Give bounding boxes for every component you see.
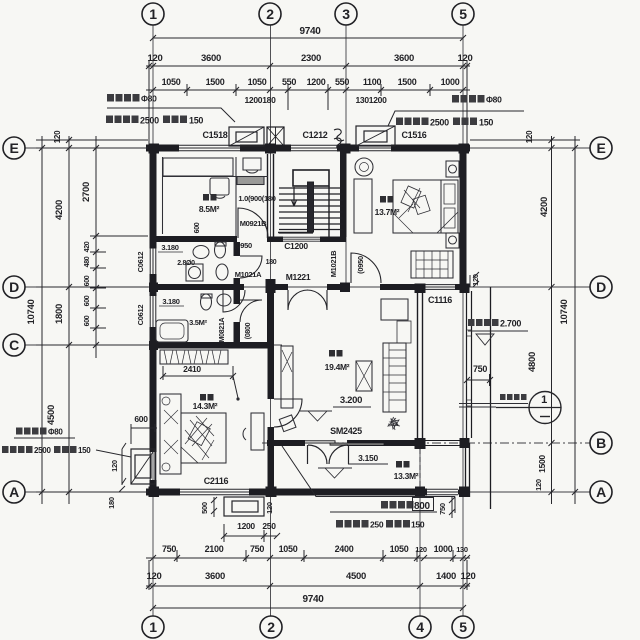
svg-text:4: 4: [416, 619, 424, 635]
axis bubble 5 top: [452, 3, 474, 25]
ticks left: [39, 137, 99, 495]
bedroom2 nightstand top: [446, 161, 459, 177]
wall top E segment left: [146, 145, 179, 152]
svg-text:3.150: 3.150: [358, 453, 378, 463]
axis bubble 5 bottom: [452, 616, 474, 638]
svg-text:D: D: [596, 279, 606, 295]
svg-text:4500: 4500: [46, 405, 57, 425]
svg-text:B: B: [596, 435, 606, 451]
room label bedroom2: [375, 196, 400, 217]
wall left axis1 bottom: [150, 480, 157, 496]
annotation balcony rail: [500, 394, 527, 400]
svg-text:1000: 1000: [441, 77, 460, 87]
bathroom1 toilet: [215, 242, 226, 258]
svg-text:C2116: C2116: [204, 476, 229, 486]
living cabinet top right: [381, 299, 408, 320]
svg-text:120: 120: [147, 571, 162, 582]
svg-text:C1212: C1212: [302, 130, 327, 140]
axis bubble 2 top: [259, 3, 281, 25]
wall interior y236 bedroom8.5 bottom: [153, 236, 237, 242]
wall axis2 C-door: [268, 348, 275, 399]
bay box window C1518: [229, 127, 264, 146]
dim line 9740 top: [153, 37, 463, 39]
balcony rail hatch: [467, 330, 472, 406]
svg-text:120: 120: [148, 53, 163, 64]
axis bubble 1 bottom: [142, 616, 164, 638]
svg-text:2500: 2500: [430, 118, 449, 128]
column axis1/A: [149, 487, 160, 498]
axis4 dashed below B: [419, 449, 421, 488]
svg-text:2: 2: [267, 619, 275, 635]
bathroom1 fixture: [216, 264, 228, 280]
wall axis2 B-A: [268, 443, 275, 492]
axis bubble E right: [590, 137, 612, 159]
living plant: [388, 417, 400, 430]
axis bubble 3 top: [335, 3, 357, 25]
axis E line: [25, 147, 590, 149]
svg-text:3600: 3600: [394, 53, 414, 64]
svg-text:1200180: 1200180: [245, 95, 277, 105]
flue squiggle right of axis3: [334, 129, 344, 149]
column axis4/B: [415, 438, 426, 449]
svg-text:2500: 2500: [140, 116, 159, 126]
svg-text:C1518: C1518: [202, 130, 227, 140]
svg-text:250: 250: [370, 520, 384, 530]
wall axis2 column at D: [266, 279, 276, 293]
door bedroom3 leaf+arc: [274, 399, 302, 427]
column axis2/E: [265, 144, 276, 154]
dim line 1200/250: [221, 524, 280, 542]
door M0921B bedroom1 leaf+arc: [238, 208, 268, 238]
svg-text:3.180: 3.180: [161, 243, 178, 252]
extension stubs right: [470, 137, 580, 495]
room label living: [325, 350, 350, 372]
svg-text:Φ80: Φ80: [141, 94, 157, 104]
window C1200 under stair: [283, 237, 320, 241]
svg-text:M0821A: M0821A: [219, 317, 226, 342]
wall D right segment: [380, 284, 425, 290]
column axis1/E: [149, 144, 160, 154]
wall axis2 D-C: [267, 290, 274, 345]
bedroom2 nightstand bottom: [446, 233, 459, 248]
door lower bath leaf+arc: [240, 300, 262, 322]
wall bath east x237: [234, 242, 241, 256]
window bottom right kitchen: [427, 489, 458, 495]
dim line 4200/4800/1500 right: [551, 136, 553, 504]
dim line 120/3600/4500/1400/120: [146, 585, 470, 587]
svg-text:150: 150: [189, 116, 203, 126]
ticks row2: [146, 63, 470, 69]
bay box window C2116 south: [224, 497, 264, 516]
svg-text:4200: 4200: [54, 200, 65, 220]
svg-text:E: E: [9, 140, 18, 156]
column axis2/A: [266, 487, 277, 498]
svg-text:19.4M²: 19.4M²: [325, 362, 350, 372]
room label kitchen: [394, 461, 419, 481]
svg-text:1050: 1050: [162, 77, 181, 87]
wall top E segment right: [391, 145, 470, 152]
svg-text:150: 150: [411, 520, 425, 530]
wall C y345: [153, 342, 274, 349]
balcony rail E-B: [467, 291, 472, 438]
column axis5/D: [460, 284, 470, 294]
window C1518 top wall: [179, 145, 240, 151]
svg-text:120: 120: [458, 53, 473, 64]
svg-text:A: A: [9, 484, 19, 500]
wall left axis1 upper: [150, 145, 157, 249]
svg-text:1301200: 1301200: [356, 95, 388, 105]
svg-text:2300: 2300: [301, 53, 321, 64]
window C1116 in D wall: [425, 285, 455, 290]
svg-text:C: C: [9, 337, 19, 353]
svg-text:2500: 2500: [34, 446, 51, 455]
ticks row1: [150, 35, 466, 41]
svg-text:600: 600: [84, 275, 91, 286]
wall D hall segment: [266, 284, 288, 290]
svg-text:120: 120: [525, 130, 534, 143]
svg-text:2700: 2700: [81, 182, 92, 202]
bathroom1 washbasin: [193, 246, 209, 259]
column axis4/A: [415, 487, 425, 498]
svg-text:750: 750: [162, 544, 176, 554]
svg-text:1: 1: [149, 619, 157, 635]
wall top E segment mid (axis1-2): [240, 145, 291, 152]
room label bedroom3: [193, 394, 218, 411]
bedroom3 bed headboard: [160, 394, 181, 474]
svg-text:3: 3: [342, 6, 350, 22]
svg-text:120: 120: [534, 479, 543, 491]
svg-text:(0950: (0950: [234, 241, 252, 250]
axis bubble 2 bottom: [260, 616, 282, 638]
window C0612 upper left wall: [150, 248, 156, 274]
svg-text:2: 2: [266, 6, 274, 22]
svg-text:600: 600: [134, 414, 148, 424]
annotation wall height left: [106, 116, 203, 126]
svg-text:150: 150: [78, 446, 91, 455]
wall stair east x346: [340, 148, 347, 237]
svg-text:130: 130: [456, 545, 468, 554]
svg-text:120: 120: [461, 571, 476, 582]
svg-text:750: 750: [250, 544, 264, 554]
svg-text:(0950: (0950: [356, 256, 365, 274]
dim line detail row: [146, 89, 470, 91]
wall D left (bath bottom): [153, 284, 244, 290]
svg-text:2100: 2100: [205, 544, 224, 554]
svg-text:120: 120: [415, 545, 427, 554]
svg-text:10740: 10740: [559, 300, 570, 325]
column axis4/D: [415, 284, 426, 294]
svg-text:750: 750: [473, 364, 487, 374]
axis A line: [25, 491, 590, 493]
wall axis2 E-D double line: [268, 154, 274, 238]
svg-text:180: 180: [107, 497, 116, 509]
svg-text:1800: 1800: [54, 304, 65, 324]
annotation wall height bottom-mid: [336, 520, 425, 530]
svg-text:D: D: [9, 279, 19, 295]
svg-text:550: 550: [335, 77, 349, 87]
wall D far right segment: [455, 284, 467, 290]
living east wall axis4 double line: [418, 290, 423, 440]
bedroom2 round chair: [355, 158, 373, 176]
level symbol 2.700: [468, 331, 528, 345]
bedroom1 closet top: [163, 158, 233, 176]
svg-text:4800: 4800: [527, 352, 538, 372]
svg-text:180: 180: [266, 259, 277, 266]
svg-text:1: 1: [541, 394, 547, 406]
svg-text:3600: 3600: [205, 571, 225, 582]
wall bottom A left: [146, 489, 180, 496]
stair bottom edge: [278, 232, 313, 234]
living sofa right: [383, 343, 406, 412]
svg-text:600: 600: [84, 315, 91, 326]
axis D line: [25, 286, 590, 288]
svg-text:14.3M²: 14.3M²: [193, 401, 218, 411]
axis 4 line: [419, 446, 421, 616]
bedroom3 wardrobe hatched: [160, 350, 228, 364]
svg-text:1500: 1500: [398, 77, 417, 87]
svg-text:1500: 1500: [206, 77, 225, 87]
svg-text:3.5M²: 3.5M²: [189, 318, 207, 327]
svg-text:120: 120: [110, 460, 119, 472]
axis bubble A left: [3, 481, 25, 503]
axis bubble C left: [3, 334, 25, 356]
bathroom2 toilet: [201, 294, 212, 310]
svg-text:C0612: C0612: [136, 252, 145, 273]
column axis3/E: [340, 144, 351, 154]
column axis1/C: [149, 341, 158, 350]
column axis3/D: [340, 283, 350, 293]
axis bubble 1 top: [142, 3, 164, 25]
bathroom1 washer: [186, 264, 203, 281]
svg-text:Φ80: Φ80: [486, 95, 502, 105]
svg-text:SM2425: SM2425: [330, 426, 362, 436]
svg-text:1200: 1200: [237, 521, 255, 531]
annotation AC hole bottom-mid: [381, 498, 434, 513]
svg-text:1050: 1050: [279, 544, 298, 554]
svg-text:2400: 2400: [335, 544, 354, 554]
axis bubble E left: [3, 137, 25, 159]
column axis5/B: [460, 438, 470, 448]
axis bubble D left: [3, 276, 25, 298]
ticks row3: [150, 87, 466, 93]
column axis5/A: [459, 487, 470, 498]
svg-text:2.8Ø0: 2.8Ø0: [177, 260, 195, 267]
dim line detail bottom: [146, 557, 470, 559]
axis 5 line: [462, 25, 464, 616]
svg-text:120: 120: [53, 130, 62, 143]
ticks bottom rows: [150, 555, 470, 561]
door M1021B leaf+arc to bedroom2: [351, 253, 381, 283]
wall bottom A right: [458, 490, 466, 495]
svg-text:8.5M²: 8.5M²: [199, 204, 220, 214]
bedroom2 sofa bottom: [411, 251, 453, 278]
stair landing rect: [293, 170, 329, 186]
annotation slab level 2.700: [468, 319, 521, 329]
svg-text:1050: 1050: [390, 544, 409, 554]
svg-text:420: 420: [84, 241, 91, 252]
stair up arrow: [292, 187, 297, 206]
svg-text:1050: 1050: [248, 77, 267, 87]
wall D mid segment: [327, 284, 350, 290]
svg-text:120: 120: [265, 502, 274, 514]
svg-text:C1116: C1116: [428, 295, 452, 305]
svg-text:C0612: C0612: [136, 305, 145, 326]
wall left axis1 mid: [150, 274, 157, 296]
svg-text:150: 150: [479, 118, 493, 128]
svg-text:500: 500: [200, 502, 209, 514]
svg-text:1000: 1000: [434, 544, 453, 554]
svg-text:1400: 1400: [436, 571, 456, 582]
window C2116 bottom wall: [180, 489, 249, 495]
detail mark circle 1: [529, 392, 561, 424]
entry sliding door SM2425 leaves: [283, 441, 335, 443]
svg-text:480: 480: [84, 256, 91, 267]
extension stubs left: [36, 140, 148, 492]
dim 750 balcony: [464, 374, 493, 386]
living table: [356, 361, 372, 391]
dim line 120/3600/2300/3600/120: [146, 65, 470, 67]
svg-text:M1221: M1221: [286, 272, 311, 282]
bedroom1 desk: [237, 177, 264, 185]
door M1221 double leaf+arcs to living: [288, 290, 327, 310]
dim line 9740 bottom: [153, 607, 463, 609]
annotation AC hole right: [452, 95, 502, 105]
annotation wall height right: [396, 118, 493, 128]
svg-text:2410: 2410: [183, 364, 201, 374]
svg-text:4200: 4200: [539, 197, 550, 217]
svg-text:1200: 1200: [307, 77, 326, 87]
bathroom2 bathtub: [156, 320, 188, 342]
annotation AC hole left: [107, 94, 157, 104]
svg-text:120: 120: [471, 274, 480, 286]
wall right lower B-A thin: [466, 443, 470, 497]
balcony outer edge: [490, 287, 492, 509]
leader to AC window: [96, 450, 131, 457]
balcony rail leader double line: [459, 404, 528, 408]
wall bottom A mid: [249, 489, 427, 496]
bedroom3 desk: [251, 413, 264, 450]
svg-text:4500: 4500: [346, 571, 366, 582]
extension lines top: [149, 60, 467, 144]
svg-text:M1021A: M1021A: [235, 270, 262, 279]
svg-text:600: 600: [84, 295, 91, 306]
stair treads: [279, 188, 343, 233]
flue block left of axis2: [267, 127, 284, 146]
bedroom1 table: [210, 178, 229, 195]
door M1021A hall leaf+arc: [223, 290, 245, 312]
svg-text:3.180: 3.180: [162, 297, 179, 306]
wall B right segment: [347, 440, 415, 446]
svg-text:M0921B: M0921B: [240, 219, 267, 228]
svg-text:1: 1: [149, 6, 157, 22]
svg-text:10740: 10740: [26, 300, 37, 325]
dim line detail left: [95, 136, 97, 358]
bathroom2 basin: [217, 294, 231, 306]
bedroom1 inner wall line: [162, 157, 164, 234]
dim 500 bay: [211, 497, 217, 517]
stair well right edge: [328, 186, 330, 238]
axis bubble 4 bottom: [409, 616, 431, 638]
column axis5/E: [459, 144, 470, 154]
bedroom2 dresser left: [354, 179, 372, 233]
svg-text:1.0(900(180: 1.0(900(180: [238, 194, 275, 203]
window C1516 top wall: [359, 145, 391, 151]
axis C line: [25, 344, 282, 346]
axis bubble A right: [590, 481, 612, 503]
B wall right thin: [425, 441, 460, 446]
svg-text:(0800: (0800: [245, 322, 252, 339]
svg-text:2.700: 2.700: [500, 319, 521, 329]
bay box window C1516: [356, 126, 395, 146]
wall left axis1 lower: [150, 327, 157, 452]
wall interior y236 under stair: [267, 237, 283, 243]
axis 3 line: [345, 25, 347, 292]
AC bay window left wall: [150, 452, 156, 480]
svg-text:9740: 9740: [302, 594, 324, 605]
wall right axis5: [460, 145, 467, 292]
svg-text:250: 250: [262, 521, 276, 531]
living diamond stool: [279, 415, 296, 432]
svg-text:13.7M²: 13.7M²: [375, 207, 400, 217]
svg-text:600: 600: [194, 222, 201, 233]
svg-text:A: A: [596, 484, 606, 500]
svg-text:1500: 1500: [537, 455, 547, 473]
dim line 10740 left: [41, 136, 43, 504]
bedroom1 partition: [235, 157, 237, 236]
wall B left segment: [267, 440, 305, 446]
door upper bath leaf+arc: [240, 256, 262, 278]
svg-text:3600: 3600: [201, 53, 221, 64]
axis 1 line: [152, 25, 154, 616]
dim line 4200/1800/4500 left: [68, 136, 70, 504]
bedroom2 bed: [393, 180, 458, 233]
room label bedroom1: [199, 194, 220, 214]
extension stubs bottom: [149, 550, 467, 590]
wall top E segment (axis2-3): [337, 145, 359, 152]
axis bubble D right: [590, 276, 612, 298]
svg-text:550: 550: [282, 77, 296, 87]
svg-text:3.200: 3.200: [340, 395, 362, 406]
svg-text:1100: 1100: [363, 77, 382, 87]
svg-text:13.3M²: 13.3M²: [394, 471, 419, 481]
window C0612 lower left wall: [150, 296, 156, 327]
column axis1/D: [149, 283, 158, 293]
bedroom1 chair: [243, 158, 261, 173]
svg-text:Φ80: Φ80: [48, 428, 63, 437]
living TV cabinet: [281, 346, 293, 408]
wall axis2 door-B: [268, 427, 275, 443]
dim line 10740 right: [574, 136, 576, 504]
leader entry annotation: [282, 446, 455, 513]
svg-text:C1200: C1200: [284, 241, 308, 251]
svg-text:5: 5: [459, 6, 467, 22]
svg-text:5: 5: [459, 619, 467, 635]
svg-text:C1516: C1516: [401, 130, 426, 140]
svg-text:M1021B: M1021B: [329, 250, 338, 277]
svg-text:750: 750: [438, 503, 447, 515]
axis bubble B right: [590, 432, 612, 454]
bedroom3 bed: [181, 413, 226, 463]
stair handrail bar: [308, 182, 314, 232]
svg-text:9740: 9740: [299, 26, 321, 37]
dim 120 right D: [470, 272, 479, 287]
axis 2 line: [270, 25, 272, 616]
window C1212 top wall: [291, 145, 337, 151]
annotation wall height bottom-left: [2, 446, 91, 455]
annotation AC hole bottom-left: [16, 428, 63, 437]
axis B line: [262, 442, 590, 444]
svg-text:E: E: [596, 140, 605, 156]
